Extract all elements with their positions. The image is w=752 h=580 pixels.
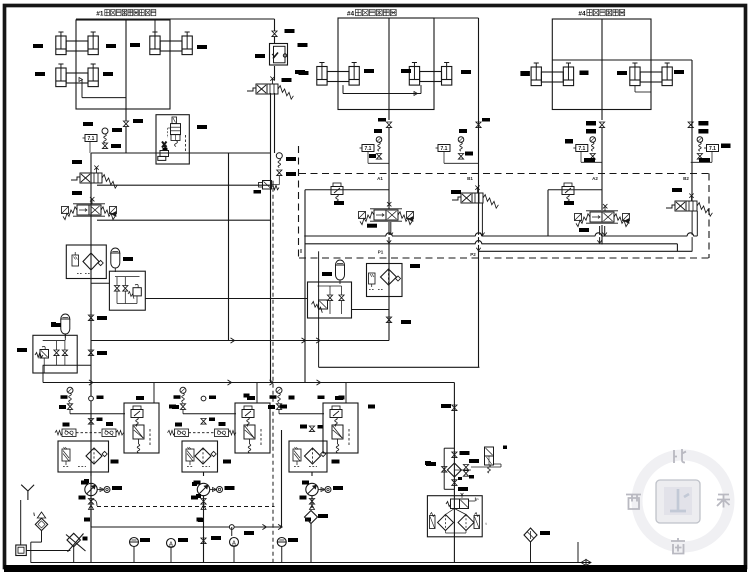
svg-text:P1: P1 [378, 250, 384, 255]
svg-text:P: P [476, 497, 479, 502]
svg-text:B2: B2 [683, 176, 689, 181]
svg-text:7.1: 7.1 [709, 146, 716, 152]
svg-text:P2: P2 [470, 252, 476, 257]
svg-text:B1: B1 [467, 176, 473, 181]
svg-text:7.1: 7.1 [365, 146, 372, 152]
svg-text:#4: #4 [347, 11, 355, 18]
svg-text:A2: A2 [592, 176, 598, 181]
svg-text:#4: #4 [578, 11, 586, 18]
svg-text:7.1: 7.1 [88, 136, 95, 142]
svg-text:7.1: 7.1 [441, 146, 448, 152]
svg-text:A1: A1 [377, 176, 383, 181]
svg-text:#1: #1 [96, 11, 104, 18]
svg-text:7.1: 7.1 [578, 146, 585, 152]
